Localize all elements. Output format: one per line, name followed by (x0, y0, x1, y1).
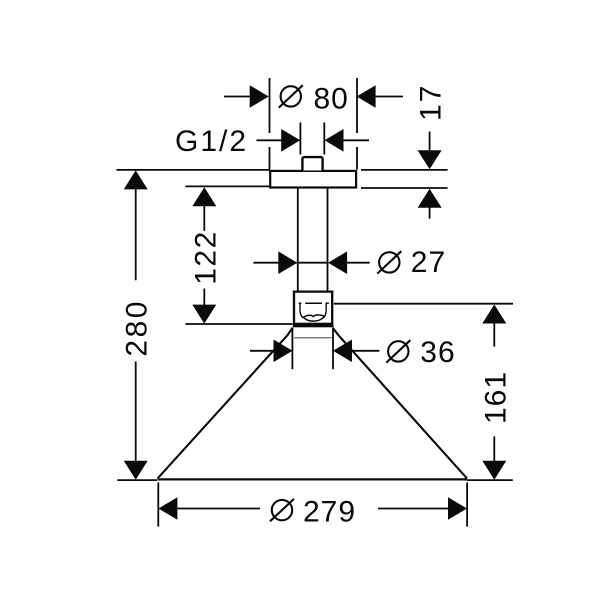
svg-text:G1/2: G1/2 (175, 125, 248, 158)
dimension Ø 279 (rim) (158, 483, 467, 529)
dimension 17 (plate thickness) (361, 84, 448, 219)
connector block (293, 291, 333, 328)
svg-text:80: 80 (314, 82, 349, 115)
svg-text:122: 122 (189, 230, 222, 285)
dimension Ø 36 (neck) (250, 329, 456, 370)
svg-text:279: 279 (303, 496, 356, 529)
svg-text:27: 27 (411, 246, 446, 279)
svg-text:17: 17 (415, 84, 448, 121)
shower cone left edge (158, 328, 293, 479)
G1/2 thread stub on top of plate (302, 157, 322, 170)
dimension Ø 80 (224, 78, 403, 170)
dimension G1/2 (175, 123, 369, 159)
svg-text:161: 161 (479, 371, 512, 424)
svg-text:280: 280 (121, 299, 154, 357)
dimension 122 (pipe length) (185, 186, 292, 324)
ceiling plate (escutcheon Ø80) (270, 171, 356, 188)
dimension 280 (total height) (116, 170, 270, 480)
svg-text:36: 36 (420, 336, 455, 369)
cone bottom rim Ø279 (158, 478, 468, 480)
supply pipe Ø27 (298, 188, 328, 292)
dimension Ø 27 (pipe) (253, 246, 446, 279)
shower cone right edge (333, 328, 467, 479)
cone neck inner line (294, 337, 332, 339)
hidden detail inside block (299, 303, 329, 322)
dimension 161 (cone height) (334, 304, 513, 480)
